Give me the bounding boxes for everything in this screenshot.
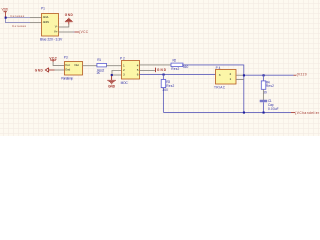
svg-text:Сетевая: Сетевая xyxy=(10,14,24,18)
svg-text:3: 3 xyxy=(219,73,221,77)
svg-text:V220: V220 xyxy=(2,8,9,12)
svg-text:AC/L: AC/L xyxy=(43,15,49,19)
svg-text:1: 1 xyxy=(230,77,232,81)
svg-text:MOC: MOC xyxy=(121,81,129,85)
svg-text:GND: GND xyxy=(35,68,44,72)
svg-text:4: 4 xyxy=(137,63,139,67)
svg-text:Сетевая: Сетевая xyxy=(12,24,26,28)
svg-text:Out: Out xyxy=(74,63,79,67)
svg-text:R2: R2 xyxy=(173,59,177,63)
svg-text:{VChandelier: {VChandelier xyxy=(295,111,320,115)
svg-text:0.03uF: 0.03uF xyxy=(268,107,279,111)
svg-text:Blue 220 - 3.3V: Blue 220 - 3.3V xyxy=(40,38,63,42)
svg-text:TRIAC: TRIAC xyxy=(214,86,226,90)
svg-text:6: 6 xyxy=(137,73,139,77)
svg-text:GND: GND xyxy=(108,85,116,89)
svg-text:V-: V- xyxy=(55,25,58,29)
svg-text:V+: V+ xyxy=(54,30,58,34)
svg-text:{V220: {V220 xyxy=(297,73,307,77)
svg-text:GND: GND xyxy=(65,13,74,17)
svg-text:5: 5 xyxy=(137,68,139,72)
svg-text:P2: P2 xyxy=(120,56,125,60)
svg-text:360: 360 xyxy=(183,65,189,69)
svg-text:Panstamp: Panstamp xyxy=(61,77,73,81)
svg-text:AC/N: AC/N xyxy=(43,20,49,24)
svg-text:Res2: Res2 xyxy=(266,84,274,88)
svg-text:3: 3 xyxy=(123,73,125,77)
svg-text:R1: R1 xyxy=(97,58,101,62)
svg-text:2: 2 xyxy=(230,72,232,76)
svg-text:Res2: Res2 xyxy=(171,67,179,71)
svg-text:Vcc: Vcc xyxy=(65,63,71,67)
svg-text:2: 2 xyxy=(123,68,125,72)
svg-text:P1: P1 xyxy=(41,6,45,10)
svg-text:GND: GND xyxy=(157,68,167,72)
svg-text:1: 1 xyxy=(123,63,125,67)
svg-text:P3: P3 xyxy=(64,55,68,59)
svg-text:360: 360 xyxy=(162,88,168,92)
svg-text:Gnd: Gnd xyxy=(65,68,70,72)
svg-text:{VCC: {VCC xyxy=(79,30,89,34)
